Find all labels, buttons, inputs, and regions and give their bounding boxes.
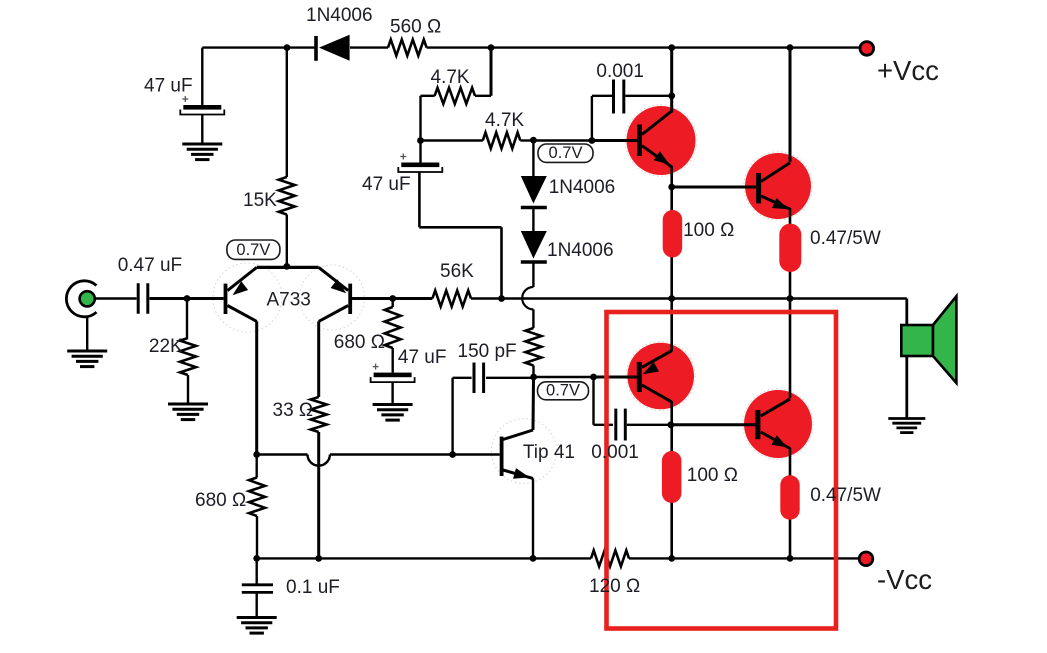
svg-text:33 Ω: 33 Ω (273, 400, 314, 421)
svg-text:680 Ω: 680 Ω (195, 490, 246, 511)
svg-text:47 uF: 47 uF (144, 76, 193, 97)
svg-text:0.7V: 0.7V (549, 144, 583, 162)
svg-text:0.47 uF: 0.47 uF (118, 255, 182, 276)
svg-text:100 Ω: 100 Ω (687, 465, 738, 486)
svg-text:A733: A733 (267, 290, 311, 311)
svg-text:0.7V: 0.7V (546, 381, 580, 399)
svg-text:0.001: 0.001 (591, 442, 639, 463)
svg-text:150 pF: 150 pF (458, 341, 517, 362)
svg-text:100 Ω: 100 Ω (683, 220, 734, 241)
svg-text:Tip 41: Tip 41 (523, 442, 575, 463)
svg-text:15K: 15K (243, 190, 277, 211)
svg-text:+Vcc: +Vcc (877, 55, 939, 86)
svg-text:22K: 22K (149, 336, 183, 357)
svg-text:4.7K: 4.7K (431, 67, 470, 88)
svg-text:-Vcc: -Vcc (877, 564, 932, 595)
svg-text:0.1 uF: 0.1 uF (286, 577, 340, 598)
svg-text:0.001: 0.001 (596, 61, 644, 82)
svg-text:0.7V: 0.7V (236, 241, 270, 259)
svg-text:56K: 56K (440, 261, 474, 282)
svg-text:1N4006: 1N4006 (306, 5, 373, 26)
svg-text:0.47/5W: 0.47/5W (810, 228, 881, 249)
svg-text:47 uF: 47 uF (362, 174, 411, 195)
svg-text:4.7K: 4.7K (485, 110, 524, 131)
svg-text:120 Ω: 120 Ω (589, 576, 640, 597)
svg-text:0.47/5W: 0.47/5W (810, 485, 881, 506)
svg-text:1N4006: 1N4006 (549, 177, 616, 198)
svg-text:47 uF: 47 uF (398, 347, 447, 368)
svg-text:560 Ω: 560 Ω (390, 17, 441, 38)
svg-text:680 Ω: 680 Ω (334, 332, 385, 353)
svg-text:1N4006: 1N4006 (547, 240, 614, 261)
